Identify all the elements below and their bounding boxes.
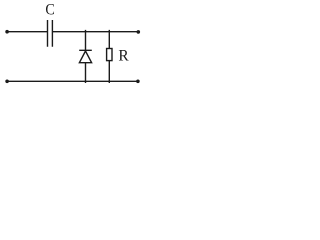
svg-text:R: R [118,48,129,65]
svg-text:C: C [45,2,54,19]
